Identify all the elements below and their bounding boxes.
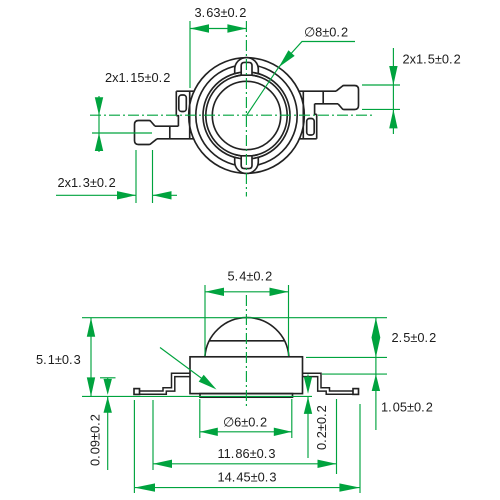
arrow 2x1.15 top — [95, 97, 103, 115]
svg-text:∅8±0. 2: ∅8±0. 2 — [304, 25, 348, 40]
dim 14.45 extension left — [133, 400, 135, 493]
svg-text:∅6±0. 2: ∅6±0. 2 — [223, 415, 267, 430]
lead top extension right — [322, 373, 387, 375]
vertical centerline — [245, 21, 247, 197]
bottom plate — [200, 394, 293, 398]
svg-text:0. 09±0. 2: 0. 09±0. 2 — [88, 414, 103, 466]
dome top extension line — [82, 317, 387, 319]
lens circle r34.2 — [212, 81, 280, 149]
arrow 2x1.3 right — [153, 191, 172, 199]
arrow 2x1.15 bottom — [95, 133, 103, 151]
dim Ø6 extension right — [291, 399, 293, 438]
right lead stem bottom — [315, 103, 338, 105]
right side flat and tab — [299, 86, 359, 139]
left tab slot — [179, 95, 187, 112]
dim 3.63 line — [190, 28, 246, 30]
ring circle r40.7 — [206, 75, 287, 156]
left lead end hook — [134, 389, 140, 395]
dim 2x1.3 line right — [153, 194, 178, 196]
arrow 3.63 left — [190, 24, 209, 32]
arrow Ø6 left — [200, 428, 218, 436]
left lead stem top — [155, 125, 178, 127]
arrow 5.1 bottom — [87, 377, 95, 396]
leader diagonal — [160, 348, 214, 388]
dim 2x1.5 vertical — [392, 48, 394, 134]
right lead — [303, 373, 354, 391]
arrow 2x1.5 bottom — [389, 109, 397, 128]
dim 11.86 extension left — [152, 400, 154, 470]
top tab arch — [234, 58, 260, 77]
dim Ø6 line — [200, 431, 292, 433]
dim 5.1 vertical — [90, 318, 92, 397]
right tab step — [315, 104, 317, 115]
svg-text:14. 45±0. 3: 14. 45±0. 3 — [218, 470, 277, 485]
arrow 3.63 right — [227, 24, 246, 32]
body top extension right — [306, 356, 387, 358]
arrow Ø8 — [279, 50, 295, 67]
arrow 2x1.3 left — [117, 191, 136, 199]
body rectangle — [190, 357, 303, 394]
svg-text:2x1. 5±0. 2: 2x1. 5±0. 2 — [403, 52, 461, 67]
dome chord line — [210, 340, 285, 342]
right lead bulb — [336, 86, 359, 110]
arrow 0.09 down — [104, 379, 112, 395]
ring circle r43.5 — [203, 72, 290, 159]
left stem crossing line — [169, 126, 171, 139]
arrow 5.1 top — [87, 318, 95, 337]
right tab right edge — [316, 114, 318, 139]
dim Ø8 radius line — [247, 67, 279, 115]
ring circle r50.7 — [196, 65, 297, 166]
right tab bottom edge — [299, 138, 317, 140]
dim 2x1.3 line left — [56, 194, 136, 196]
arrow 0.09 up — [104, 397, 112, 413]
dim Ø6 extension left — [199, 399, 201, 438]
dim 0.2 down tail — [307, 375, 309, 379]
arrow 5.4 left — [205, 288, 224, 296]
right stem crossing line — [322, 91, 324, 104]
dim 2x1.5 extension bottom — [362, 108, 400, 110]
left lead — [139, 373, 190, 391]
svg-text:0. 2±0. 2: 0. 2±0. 2 — [314, 405, 329, 450]
bottom tab U hole — [241, 156, 252, 169]
dim 2x1.3 extension left — [135, 150, 137, 203]
left side flat and tab — [135, 91, 195, 144]
arrow 5.4 right — [270, 288, 289, 296]
dim 14.45 extension right — [359, 404, 361, 493]
dim 2x1.5 extension top — [362, 84, 400, 86]
right lead end hook — [353, 389, 359, 395]
left tab left edge — [175, 91, 177, 116]
dim 11.86 extension right — [336, 399, 338, 474]
right tab slot — [307, 119, 315, 136]
outer circle — [189, 58, 305, 174]
left tab step — [176, 116, 178, 127]
arrow 1.05 up — [372, 374, 380, 391]
dim 2x1.15 vertical — [98, 96, 100, 152]
ring arcs across top tab — [234, 72, 260, 74]
svg-text:2x1. 15±0. 2: 2x1. 15±0. 2 — [105, 70, 170, 85]
ring arcs across bottom tab — [234, 157, 260, 159]
arrow 11.86 left — [153, 460, 172, 468]
left flat edge — [189, 91, 191, 139]
arrow leader — [199, 375, 217, 390]
arrow 2.5 diamond — [372, 318, 381, 358]
arrow 11.86 right — [318, 460, 337, 468]
side view centerline — [245, 295, 247, 408]
dim 0.2 up tail — [307, 397, 309, 458]
seating plane line — [82, 395, 312, 397]
dim Ø8 leader — [279, 42, 355, 68]
dim 0.09 down tail tick — [100, 377, 116, 379]
svg-text:1. 05±0. 2: 1. 05±0. 2 — [381, 400, 433, 415]
svg-text:5. 4±0. 2: 5. 4±0. 2 — [228, 268, 273, 283]
dim 2x1.3 extension right — [152, 150, 154, 203]
svg-text:3. 63±0. 2: 3. 63±0. 2 — [195, 5, 247, 20]
svg-text:11. 86±0. 3: 11. 86±0. 3 — [218, 446, 276, 461]
svg-text:5. 1±0. 3: 5. 1±0. 3 — [36, 352, 81, 367]
arrow 2x1.5 top — [389, 66, 397, 85]
bottom tab arch — [234, 155, 260, 174]
dim 5.4 extension left — [204, 285, 206, 356]
arrow 14.45 right — [339, 483, 360, 491]
dim 2x1.15 lower extension — [92, 132, 152, 134]
dim 0.09 up tail — [107, 397, 109, 470]
dim 14.45 line — [134, 487, 360, 489]
right flat edge — [302, 91, 304, 139]
dim 2.5 / 1.05 vertical — [375, 318, 377, 430]
right lead stem top — [299, 90, 336, 92]
arrow 0.2 down — [304, 377, 312, 394]
dim 5.4 extension right — [288, 285, 290, 356]
arrow 0.2 up — [304, 397, 312, 414]
dim 11.86 line — [153, 463, 337, 465]
dome — [205, 318, 289, 357]
dim 5.4 line — [205, 291, 289, 293]
arrow 14.45 left — [134, 483, 155, 491]
dim 3.63 left extension — [189, 21, 191, 88]
top tab U hole — [241, 62, 252, 75]
left lead bulb — [135, 121, 158, 145]
svg-text:2x1. 3±0. 2: 2x1. 3±0. 2 — [58, 175, 116, 190]
left tab top edge — [176, 90, 194, 92]
horizontal centerline — [90, 114, 372, 116]
left lead stem bottom — [157, 138, 194, 140]
arrow Ø6 right — [274, 428, 292, 436]
svg-text:2. 5±0. 2: 2. 5±0. 2 — [392, 330, 437, 345]
